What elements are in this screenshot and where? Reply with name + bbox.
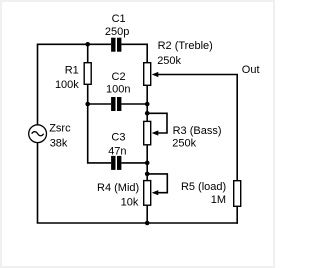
svg-text:R3 (Bass): R3 (Bass) (173, 125, 222, 137)
svg-text:C1: C1 (112, 13, 126, 25)
potentiometer R3 (Bass) (144, 121, 222, 149)
junction C2 right (145, 102, 150, 107)
svg-text:250k: 250k (157, 55, 181, 67)
wire top rail (38, 43, 148, 45)
capacitor C1 (105, 13, 129, 52)
junction C3 right (145, 161, 150, 166)
wire center bus upper stub (87, 44, 89, 62)
wire R5 bottom (236, 207, 238, 224)
capacitor C3 (108, 131, 126, 170)
wire R2 branch (146, 44, 148, 224)
svg-text:R2 (Treble): R2 (Treble) (158, 40, 213, 52)
junction R4 tap (145, 172, 150, 177)
junction bottom rail (145, 221, 150, 226)
wire R2 wiper to out rail (157, 75, 238, 181)
junction C2 left (85, 102, 90, 107)
svg-text:250p: 250p (105, 26, 129, 38)
svg-text:10k: 10k (121, 197, 139, 209)
wire C3 row right (121, 162, 147, 164)
svg-text:47n: 47n (108, 145, 126, 157)
svg-text:R4 (Mid): R4 (Mid) (97, 182, 139, 194)
svg-text:Out: Out (242, 64, 260, 76)
wire left rail lower (37, 143, 39, 223)
svg-text:Zsrc: Zsrc (49, 122, 71, 134)
source Zsrc (29, 122, 71, 149)
svg-text:C3: C3 (111, 131, 125, 143)
wire R4 wiper loop (147, 174, 167, 193)
svg-text:C2: C2 (112, 71, 126, 83)
junction R3 tap (145, 111, 150, 116)
wire left rail upper (37, 44, 39, 125)
resistor R1 (55, 63, 91, 91)
capacitor C2 (106, 71, 130, 111)
svg-text:100n: 100n (106, 84, 130, 96)
svg-text:38k: 38k (50, 137, 68, 149)
svg-text:250k: 250k (172, 138, 196, 150)
wire center bus lower (88, 85, 111, 163)
potentiometer R4 (Mid) (97, 181, 158, 209)
wire bottom rail (37, 222, 238, 224)
svg-text:100k: 100k (55, 79, 79, 91)
svg-text:1M: 1M (211, 194, 226, 206)
potentiometer R2 (Treble) (144, 40, 213, 85)
wire R3 wiper loop (147, 113, 167, 133)
junction top bus (85, 42, 90, 47)
resistor R5 (load) (181, 181, 241, 207)
svg-text:R1: R1 (65, 65, 79, 77)
svg-text:R5 (load): R5 (load) (181, 181, 226, 193)
wire C2 row (88, 103, 148, 105)
